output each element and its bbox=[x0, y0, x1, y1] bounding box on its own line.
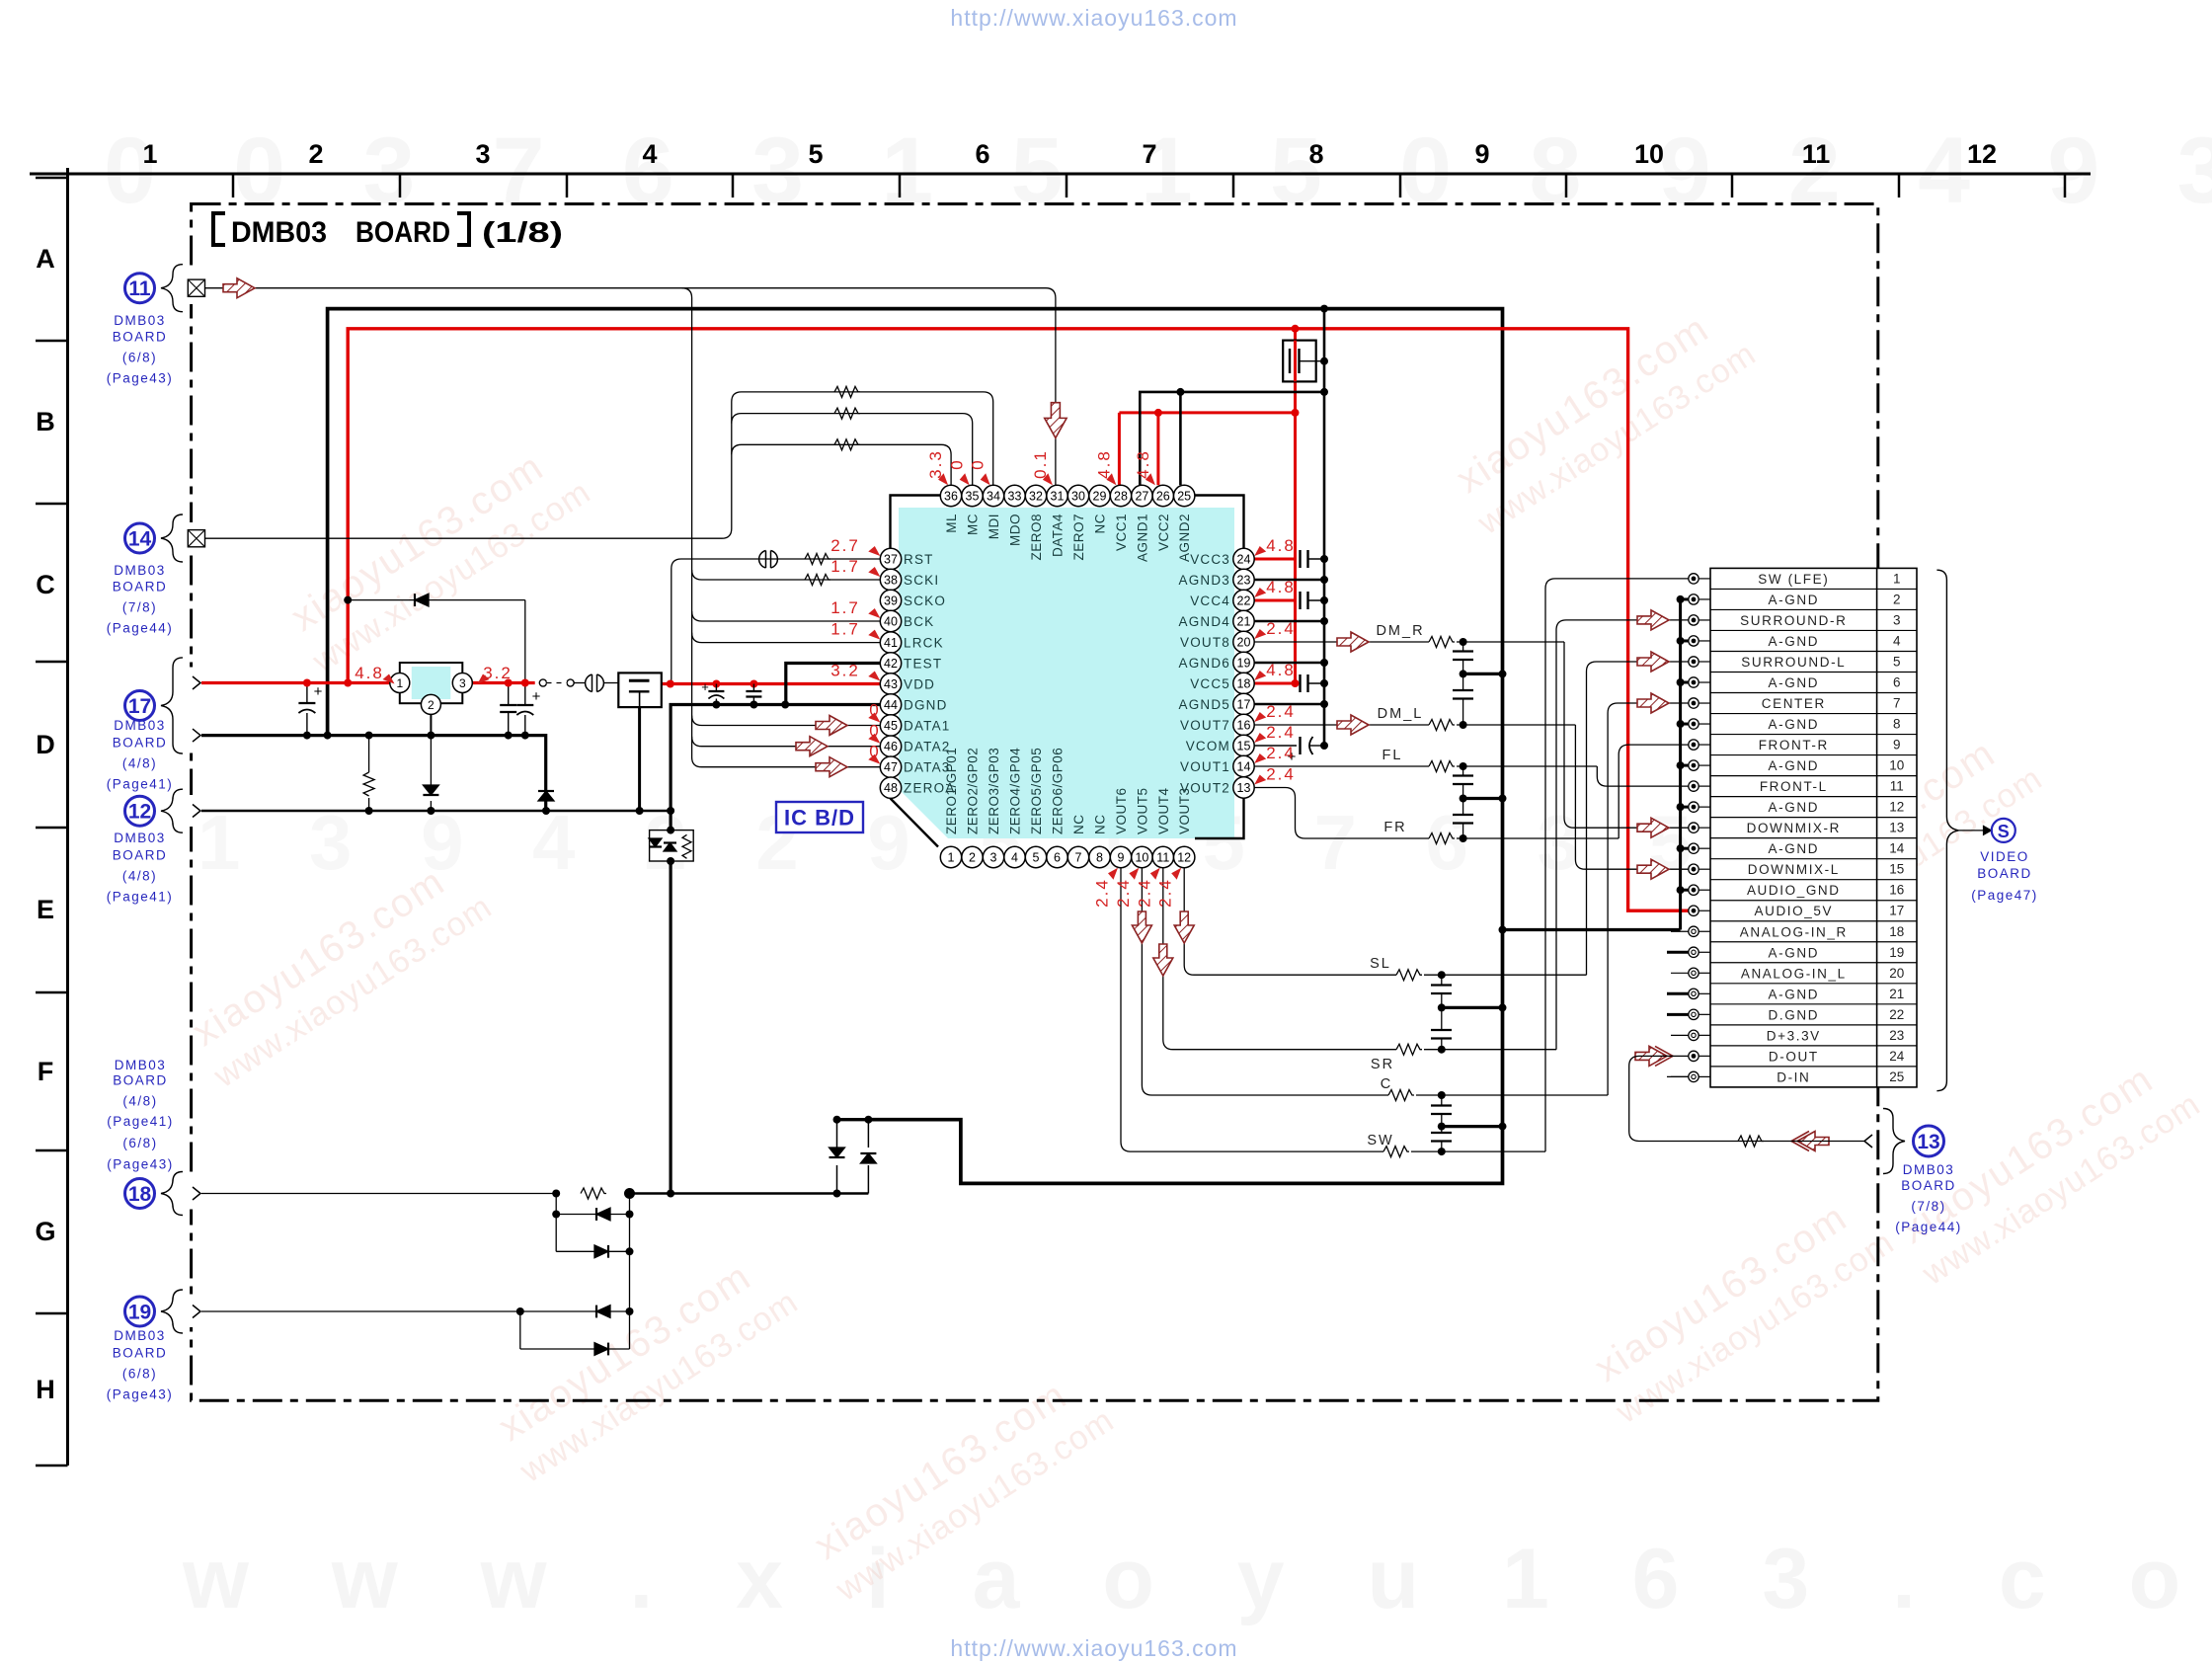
IC B/D label bbox=[776, 802, 863, 832]
IC pin 29 NC bbox=[1089, 485, 1110, 506]
svg-text:DMB03: DMB03 bbox=[1903, 1162, 1955, 1177]
svg-text:46: 46 bbox=[884, 740, 898, 753]
svg-text:DOWNMIX-L: DOWNMIX-L bbox=[1748, 862, 1840, 877]
wire: red riser to pin26 VCC2 bbox=[1156, 413, 1159, 485]
IC pin 31 DATA4 bbox=[1047, 485, 1067, 506]
svg-text:0: 0 bbox=[969, 458, 987, 469]
svg-text:1: 1 bbox=[396, 676, 403, 690]
wire: DGND bus pin44 bbox=[671, 705, 880, 1194]
svg-text:DMB03: DMB03 bbox=[114, 313, 166, 328]
svg-text:DMB03: DMB03 bbox=[115, 1058, 167, 1072]
IC pin 27 AGND1 bbox=[1132, 485, 1152, 506]
svg-text:4.8: 4.8 bbox=[1094, 449, 1113, 479]
svg-text:20: 20 bbox=[1889, 966, 1904, 981]
svg-text:MDI: MDI bbox=[987, 514, 1001, 539]
svg-text:AGND3: AGND3 bbox=[1178, 573, 1230, 588]
svg-text:ZERO5/GP05: ZERO5/GP05 bbox=[1029, 748, 1044, 834]
svg-text:7: 7 bbox=[1893, 696, 1901, 711]
svg-text:DMB03: DMB03 bbox=[114, 563, 166, 578]
svg-text:DMB03: DMB03 bbox=[114, 1328, 166, 1343]
svg-text:2: 2 bbox=[1893, 592, 1901, 606]
svg-text:19: 19 bbox=[128, 1302, 151, 1324]
wire: BCK row bbox=[692, 611, 881, 621]
wire: peel to DATA1 pin45 bbox=[692, 716, 881, 726]
svg-text:23: 23 bbox=[1889, 1028, 1904, 1043]
capacitor pair SL/SR bbox=[1441, 975, 1443, 985]
svg-text:(Page47): (Page47) bbox=[1971, 888, 2038, 903]
svg-text:BOARD: BOARD bbox=[355, 216, 450, 249]
svg-text:4: 4 bbox=[1011, 851, 1018, 865]
svg-text:A-GND: A-GND bbox=[1769, 675, 1820, 690]
svg-text:BOARD: BOARD bbox=[113, 1073, 168, 1088]
svg-text:0 0 3 7 6 3 1 5 1 5 0 8 9 2: 0 0 3 7 6 3 1 5 1 5 0 8 9 2 4 9 3 2 5 9 bbox=[104, 119, 2212, 223]
svg-text:1: 1 bbox=[1893, 571, 1901, 586]
svg-text:H: H bbox=[36, 1375, 55, 1404]
wire: conn18 input line bbox=[200, 1193, 556, 1195]
wire: regulator output red 3.2V bbox=[472, 681, 534, 684]
A-GND rail left of connector bbox=[1679, 599, 1682, 930]
wire: DM_L row from VOUT7 bbox=[1254, 724, 1429, 726]
svg-text:(7/8): (7/8) bbox=[1911, 1199, 1945, 1214]
crystal X (right, near top) bbox=[1283, 341, 1316, 382]
resistor R-RST bbox=[805, 554, 830, 565]
svg-text:A-GND: A-GND bbox=[1769, 593, 1820, 607]
svg-text:C: C bbox=[36, 570, 55, 599]
svg-text:RST: RST bbox=[904, 552, 934, 567]
svg-text:AGND5: AGND5 bbox=[1178, 697, 1230, 712]
svg-text:13: 13 bbox=[1237, 781, 1251, 795]
IC pin 37 RST bbox=[880, 548, 901, 569]
wire: LRCK row bbox=[692, 633, 881, 643]
svg-text:17: 17 bbox=[1237, 698, 1251, 712]
svg-text:VOUT8: VOUT8 bbox=[1180, 635, 1230, 650]
svg-text:ZERO8: ZERO8 bbox=[1029, 514, 1044, 561]
svg-text:VCOM: VCOM bbox=[1186, 739, 1230, 753]
svg-text:10: 10 bbox=[1634, 139, 1664, 169]
IC pin 11 VOUT4 bbox=[1152, 846, 1173, 867]
svg-text:(4/8): (4/8) bbox=[122, 869, 157, 884]
svg-text:w w w . x i a o y u 1 6 3 . c: w w w . x i a o y u 1 6 3 . c o m bbox=[182, 1532, 2212, 1626]
svg-text:11: 11 bbox=[1802, 139, 1831, 169]
brace conn13 bbox=[1883, 1109, 1905, 1174]
svg-text:ANALOG-IN_L: ANALOG-IN_L bbox=[1741, 966, 1847, 981]
svg-text:VOUT6: VOUT6 bbox=[1114, 787, 1129, 834]
svg-text:2.4: 2.4 bbox=[1156, 878, 1175, 908]
svg-text:BOARD: BOARD bbox=[113, 330, 168, 345]
svg-text:VOUT5: VOUT5 bbox=[1135, 787, 1149, 834]
svg-text:(Page44): (Page44) bbox=[1895, 1220, 1962, 1234]
wire: riser C to row7 bbox=[1608, 703, 1689, 1095]
IC pin 8 NC bbox=[1089, 846, 1110, 867]
resistor R row3 bbox=[834, 439, 860, 450]
IC pin 22 VCC4 bbox=[1233, 590, 1254, 610]
sheet top border line bbox=[30, 173, 2091, 176]
svg-text:SL: SL bbox=[1370, 956, 1391, 972]
svg-text:MDO: MDO bbox=[1008, 514, 1023, 546]
wire: riser pin25 bbox=[1179, 392, 1182, 485]
wire: conn17 pin2 ground line bbox=[200, 736, 546, 811]
capacitor pair C/SW bbox=[1441, 1095, 1443, 1105]
svg-text:D: D bbox=[36, 730, 55, 759]
wire: riser SL to row5 bbox=[1587, 662, 1690, 975]
svg-text:20: 20 bbox=[1237, 636, 1251, 650]
svg-text:3: 3 bbox=[1893, 612, 1901, 627]
svg-text:43: 43 bbox=[884, 677, 898, 691]
brace to VIDEO BOARD bbox=[1936, 570, 1958, 1091]
svg-text:23: 23 bbox=[1237, 574, 1251, 588]
svg-text:19: 19 bbox=[1237, 657, 1251, 671]
svg-text:F: F bbox=[38, 1057, 54, 1086]
svg-text:VOUT3: VOUT3 bbox=[1177, 787, 1192, 834]
svg-text:AGND6: AGND6 bbox=[1178, 656, 1230, 671]
svg-text:14: 14 bbox=[1237, 760, 1251, 774]
svg-text:28: 28 bbox=[1114, 490, 1128, 504]
svg-text:FRONT-R: FRONT-R bbox=[1759, 738, 1829, 752]
wire: riser SW to row1 bbox=[1545, 579, 1689, 1151]
connector 13 chevron bbox=[1864, 1135, 1872, 1148]
svg-text:29: 29 bbox=[1093, 490, 1107, 504]
IC pin 7 NC bbox=[1067, 846, 1088, 867]
svg-text:15: 15 bbox=[1889, 862, 1904, 877]
svg-text:SW (LFE): SW (LFE) bbox=[1758, 572, 1829, 587]
svg-text:2.4: 2.4 bbox=[1266, 702, 1296, 721]
diode D2 conn12 bbox=[545, 746, 547, 785]
svg-text:DATA4: DATA4 bbox=[1051, 514, 1066, 557]
IC pin 36 ML bbox=[940, 485, 961, 506]
svg-text:BOARD: BOARD bbox=[1901, 1178, 1956, 1193]
IC pin 2 ZERO2/GP02 bbox=[962, 846, 983, 867]
svg-text:4.8: 4.8 bbox=[1266, 578, 1296, 596]
svg-text:10: 10 bbox=[1889, 758, 1904, 773]
svg-text:SURROUND-L: SURROUND-L bbox=[1741, 655, 1846, 670]
svg-text:(Page43): (Page43) bbox=[107, 1387, 174, 1402]
svg-text:D-IN: D-IN bbox=[1777, 1069, 1810, 1084]
diode pair to ground rail (18 bus) bbox=[836, 1165, 838, 1194]
IC pin 28 VCC1 bbox=[1110, 485, 1131, 506]
svg-text:19: 19 bbox=[1889, 945, 1904, 960]
svg-text:1.7: 1.7 bbox=[830, 557, 860, 576]
svg-text:6: 6 bbox=[975, 139, 989, 169]
connector bead at regulator output bbox=[586, 674, 592, 692]
connector 17 bbox=[125, 691, 155, 721]
svg-text:3.3: 3.3 bbox=[926, 449, 945, 479]
svg-text:A-GND: A-GND bbox=[1769, 758, 1820, 773]
svg-text:10: 10 bbox=[1135, 851, 1148, 865]
IC pin 47 DATA3 bbox=[880, 756, 901, 777]
wire: D-OUT route down to conn13 bbox=[1629, 1056, 1864, 1141]
svg-text:1.7: 1.7 bbox=[830, 598, 860, 617]
svg-text:22: 22 bbox=[1237, 594, 1251, 608]
IC pin 40 BCK bbox=[880, 610, 901, 631]
svg-text:BOARD: BOARD bbox=[113, 848, 168, 863]
IC pin 41 LRCK bbox=[880, 632, 901, 653]
wire: red main 4.8V bus from regulator input up across top bbox=[348, 329, 1689, 911]
wire: SR row from VOUT4 pin11 bbox=[1163, 868, 1396, 1050]
svg-text:40: 40 bbox=[884, 615, 898, 629]
svg-text:5: 5 bbox=[1893, 654, 1901, 669]
connector 12 bbox=[125, 796, 155, 826]
IC pin 42 TEST bbox=[880, 653, 901, 673]
svg-text:1: 1 bbox=[948, 851, 955, 865]
ceramic resonator X (left box) bbox=[618, 673, 662, 707]
svg-text:6: 6 bbox=[1893, 675, 1901, 690]
capacitor C-vdd1 (polarized) at pin44 bbox=[715, 684, 717, 692]
IC pin 10 VOUT5 bbox=[1132, 846, 1152, 867]
svg-text:12: 12 bbox=[1889, 800, 1904, 815]
wire: conn19 input line bbox=[200, 1310, 520, 1312]
svg-text:4: 4 bbox=[1893, 633, 1901, 648]
svg-text:(6/8): (6/8) bbox=[122, 351, 157, 365]
IC pin 9 VOUT6 bbox=[1110, 846, 1131, 867]
svg-text:41: 41 bbox=[884, 636, 898, 650]
IC pin 17 AGND5 bbox=[1233, 693, 1254, 714]
signal-flow arrow DM_L bbox=[1337, 715, 1369, 735]
svg-text:B: B bbox=[36, 407, 55, 436]
svg-text:3.2: 3.2 bbox=[830, 662, 860, 680]
svg-text:31: 31 bbox=[1051, 490, 1065, 504]
svg-text:2: 2 bbox=[308, 139, 323, 169]
wire: DM_R row from VOUT8 bbox=[1254, 641, 1429, 643]
svg-text:11: 11 bbox=[1890, 779, 1904, 794]
capacitor pair FL/FR bbox=[1462, 766, 1464, 775]
signal-flow arrow D-OUT (double) bbox=[1635, 1046, 1667, 1066]
wire: peel to DATA2 pin46 bbox=[692, 737, 881, 747]
IC pin 1 ZERO1/GP01 bbox=[940, 846, 961, 867]
diode D18b bbox=[555, 1215, 557, 1252]
resistor R-SCKI bbox=[805, 575, 830, 586]
diode D18a bbox=[555, 1194, 557, 1215]
IC pin 44 DGND bbox=[880, 694, 901, 715]
wire: 18 bus thick segment bbox=[630, 1192, 869, 1195]
svg-text:2: 2 bbox=[969, 851, 976, 865]
svg-text:42: 42 bbox=[884, 657, 898, 671]
capacitor VCOM + stub bbox=[1254, 745, 1297, 747]
capacitor VCC bypass bbox=[1299, 550, 1301, 568]
svg-text:0.1: 0.1 bbox=[1031, 449, 1050, 479]
svg-text:2.4: 2.4 bbox=[1135, 878, 1153, 908]
svg-text:E: E bbox=[37, 895, 54, 924]
wire: D-IN stub bbox=[1667, 1075, 1689, 1077]
svg-text:(4/8): (4/8) bbox=[122, 1094, 157, 1109]
svg-text:(7/8): (7/8) bbox=[122, 600, 157, 615]
svg-text:18: 18 bbox=[1889, 924, 1904, 939]
svg-text:2.4: 2.4 bbox=[1266, 744, 1296, 762]
svg-text:18: 18 bbox=[128, 1183, 152, 1206]
svg-text:VIDEO: VIDEO bbox=[1980, 849, 2029, 864]
IC pin 25 AGND2 bbox=[1174, 485, 1195, 506]
svg-text:DATA1: DATA1 bbox=[904, 719, 951, 734]
IC pin 39 SCKO bbox=[880, 590, 901, 610]
svg-text:SW: SW bbox=[1367, 1133, 1393, 1148]
signal-flow arrow to conn13 (double left) bbox=[1797, 1132, 1829, 1151]
svg-text:12: 12 bbox=[1967, 139, 1997, 169]
IC pin 33 MDO bbox=[1004, 485, 1025, 506]
IC pin 46 DATA2 bbox=[880, 736, 901, 756]
svg-text:2.4: 2.4 bbox=[1114, 878, 1133, 908]
svg-text:4.8: 4.8 bbox=[1266, 536, 1296, 555]
svg-text:SURROUND-R: SURROUND-R bbox=[1740, 613, 1847, 628]
svg-text:4.8: 4.8 bbox=[355, 664, 384, 682]
svg-text:MC: MC bbox=[966, 514, 981, 535]
arrow line to S bbox=[1958, 830, 1989, 831]
svg-text:16: 16 bbox=[1237, 719, 1251, 733]
IC pin 43 VDD bbox=[880, 673, 901, 694]
svg-text:+: + bbox=[314, 683, 323, 700]
svg-text:A-GND: A-GND bbox=[1769, 634, 1820, 649]
svg-text:0: 0 bbox=[948, 458, 967, 469]
svg-text:AUDIO_5V: AUDIO_5V bbox=[1755, 904, 1834, 918]
signal-flow arrow DATA2 bbox=[796, 737, 828, 756]
svg-text:47: 47 bbox=[884, 760, 898, 774]
svg-text:11: 11 bbox=[128, 277, 151, 300]
capacitor pair DM (x=1481.6) bbox=[1462, 642, 1464, 651]
svg-text:18: 18 bbox=[1237, 677, 1251, 691]
svg-text:2.4: 2.4 bbox=[1266, 723, 1296, 742]
svg-text:(Page43): (Page43) bbox=[107, 371, 174, 386]
wire: conn12 zero-cross line bbox=[200, 810, 671, 812]
svg-text:http://www.xiaoyu163.com: http://www.xiaoyu163.com bbox=[950, 5, 1237, 31]
wire: C/SW cap mid to ground bbox=[1442, 1125, 1503, 1128]
svg-text:VOUT1: VOUT1 bbox=[1180, 759, 1230, 774]
svg-text:VDD: VDD bbox=[904, 677, 935, 692]
svg-text:C: C bbox=[1381, 1076, 1392, 1092]
IC pin 32 ZERO8 bbox=[1025, 485, 1046, 506]
wire: RST row with corner down to VDD bbox=[671, 559, 881, 683]
junction dots bbox=[303, 679, 311, 687]
IC pin 48 ZEROA bbox=[880, 777, 901, 798]
wire: C row from VOUT5 pin10 bbox=[1142, 868, 1388, 1095]
wire: conn14 line up to resistor rows bbox=[205, 392, 993, 538]
svg-text:VOUT7: VOUT7 bbox=[1180, 718, 1230, 733]
svg-text:8: 8 bbox=[1308, 139, 1323, 169]
wire: DM cap mid to ground bbox=[1463, 673, 1503, 675]
svg-text:2.4: 2.4 bbox=[1266, 619, 1296, 638]
svg-text:4.8: 4.8 bbox=[1134, 449, 1152, 479]
svg-text:ZERO2/GP02: ZERO2/GP02 bbox=[966, 748, 981, 834]
resistor R conn18 bbox=[581, 1188, 606, 1199]
IC pin 35 MC bbox=[962, 485, 983, 506]
svg-text:D+3.3V: D+3.3V bbox=[1767, 1028, 1821, 1043]
svg-text:BOARD: BOARD bbox=[113, 1346, 168, 1361]
diode D zero (reverse protection) bbox=[348, 599, 525, 601]
IC pin 26 VCC2 bbox=[1152, 485, 1173, 506]
wire: AGND stub y=713 bbox=[1254, 703, 1324, 706]
svg-text:44: 44 bbox=[884, 698, 898, 712]
svg-text:BOARD: BOARD bbox=[113, 580, 168, 594]
svg-text:2.4: 2.4 bbox=[1093, 878, 1112, 908]
svg-text:2: 2 bbox=[428, 698, 434, 712]
svg-text:VOUT4: VOUT4 bbox=[1156, 787, 1171, 834]
svg-text:3: 3 bbox=[990, 851, 997, 865]
svg-text:5: 5 bbox=[808, 139, 823, 169]
connector CN video-board 25pin table bbox=[1710, 568, 1917, 1087]
svg-text:16: 16 bbox=[1889, 883, 1904, 898]
signal-flow arrows at connector rows 3,5,7,13,15 bbox=[1637, 610, 1669, 630]
IC pin 20 VOUT8 bbox=[1233, 631, 1254, 652]
wire: FL/FR cap mid to ground bbox=[1463, 797, 1503, 800]
svg-text:3: 3 bbox=[459, 676, 466, 690]
svg-text:FL: FL bbox=[1382, 748, 1403, 763]
svg-text:45: 45 bbox=[884, 719, 898, 733]
IC pin 45 DATA1 bbox=[880, 715, 901, 736]
wire: signal bus down to DATA3 pin47 bbox=[682, 288, 881, 767]
svg-text:13: 13 bbox=[1889, 821, 1904, 835]
wire: AGND stub y=587 bbox=[1254, 579, 1324, 582]
svg-text:(Page41): (Page41) bbox=[107, 890, 174, 905]
svg-text:11: 11 bbox=[1156, 851, 1169, 865]
svg-text:ZERO1/GP01: ZERO1/GP01 bbox=[944, 748, 959, 834]
svg-text:27: 27 bbox=[1135, 490, 1148, 504]
svg-text:ZERO3/GP03: ZERO3/GP03 bbox=[987, 748, 1001, 834]
svg-text:1.7: 1.7 bbox=[830, 620, 860, 639]
svg-text:36: 36 bbox=[944, 490, 958, 504]
svg-text:14: 14 bbox=[128, 528, 152, 551]
wire: AGND stub y=671 bbox=[1254, 662, 1324, 665]
IC pin 6 ZERO6/GP06 bbox=[1047, 846, 1067, 867]
svg-text:9: 9 bbox=[1118, 851, 1125, 865]
svg-text:30: 30 bbox=[1071, 490, 1085, 504]
wire: resonator ground drop bbox=[638, 707, 641, 811]
svg-text:2.4: 2.4 bbox=[1266, 765, 1296, 784]
IC pin 16 VOUT7 bbox=[1233, 714, 1254, 735]
IC pin 5 ZERO5/GP05 bbox=[1025, 846, 1046, 867]
svg-text:17: 17 bbox=[1889, 904, 1904, 918]
svg-text:48: 48 bbox=[884, 781, 898, 795]
wire: red vertical to crystal and VCC pins bbox=[1294, 329, 1297, 683]
IC pin 21 AGND4 bbox=[1233, 610, 1254, 631]
svg-text:ZERO4/GP04: ZERO4/GP04 bbox=[1008, 748, 1023, 834]
signal-flow arrow conn11 bbox=[223, 278, 255, 298]
board title bbox=[213, 213, 225, 245]
svg-text:(4/8): (4/8) bbox=[122, 756, 157, 771]
wire: SL/SR cap mid to ground bbox=[1442, 1006, 1503, 1009]
wire: riser DM_R to row13 bbox=[1564, 642, 1689, 828]
svg-text:9: 9 bbox=[1893, 738, 1901, 752]
svg-text:SCKI: SCKI bbox=[904, 573, 939, 588]
svg-text:A-GND: A-GND bbox=[1769, 841, 1820, 856]
svg-text:NC: NC bbox=[1093, 815, 1108, 835]
signal-flow arrow DATA1 bbox=[816, 716, 847, 736]
wire: peel resistor row to pin36 ML bbox=[732, 444, 951, 485]
svg-text:39: 39 bbox=[884, 594, 898, 608]
IC pin 13 VOUT2 bbox=[1233, 777, 1254, 798]
sheet left border line bbox=[66, 168, 69, 1465]
svg-text:9: 9 bbox=[1474, 139, 1489, 169]
svg-text:AUDIO_GND: AUDIO_GND bbox=[1747, 883, 1841, 898]
signal-flow arrow DATA3 bbox=[816, 757, 847, 777]
wire: regulator pin2 to ground bus bbox=[430, 714, 432, 735]
diode D19b bbox=[519, 1311, 521, 1349]
IC pin 4 ZERO4/GP04 bbox=[1004, 846, 1025, 867]
svg-text:2.7: 2.7 bbox=[830, 536, 860, 555]
svg-text:8: 8 bbox=[1096, 851, 1103, 865]
svg-text:(1/8): (1/8) bbox=[482, 217, 563, 249]
wire: riser FR to row9 bbox=[1619, 745, 1689, 838]
svg-text:DOWNMIX-R: DOWNMIX-R bbox=[1747, 821, 1841, 835]
regulator IC (3-terminal) bbox=[400, 663, 463, 703]
svg-text:D-OUT: D-OUT bbox=[1769, 1049, 1819, 1064]
svg-text:IC B/D: IC B/D bbox=[784, 806, 855, 831]
capacitor VCC bypass bbox=[1299, 674, 1301, 692]
svg-text:TEST: TEST bbox=[904, 657, 942, 672]
wire: vertical join diodes right bbox=[629, 1194, 631, 1350]
connector 19 bbox=[125, 1297, 155, 1326]
svg-text:VCC4: VCC4 bbox=[1190, 594, 1230, 608]
IC pin 24 VCC3 bbox=[1233, 548, 1254, 569]
svg-text:(6/8): (6/8) bbox=[122, 1136, 157, 1150]
svg-text:24: 24 bbox=[1889, 1049, 1905, 1064]
svg-text:26: 26 bbox=[1156, 490, 1170, 504]
